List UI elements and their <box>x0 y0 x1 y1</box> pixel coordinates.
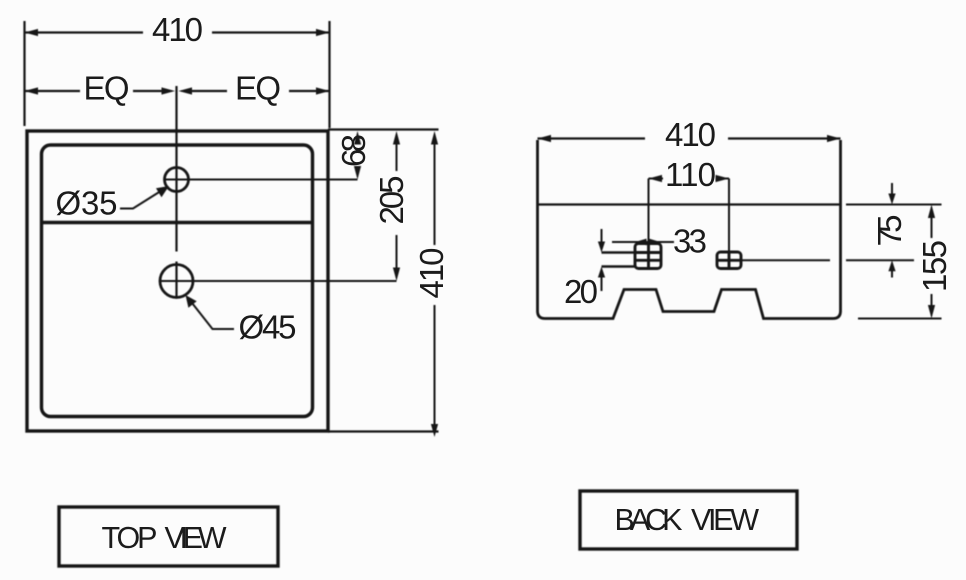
back view counter line extension right <box>846 204 942 206</box>
dimension 110 <box>649 175 730 252</box>
BACK VIEW label box <box>580 491 797 549</box>
drain hole circle (45mm) <box>160 265 193 298</box>
dimension 205 vertical <box>393 131 400 281</box>
back view outline <box>538 140 841 319</box>
dimension 410 back view <box>538 135 841 142</box>
node line from drain hole to 205 dim <box>159 280 397 282</box>
slot lines to 20 dim <box>602 253 636 267</box>
leader line for Ø35 <box>120 186 169 209</box>
top view basin divider line <box>42 221 313 224</box>
svg-text:EQ: EQ <box>84 70 130 107</box>
leader line for Ø45 <box>186 295 235 329</box>
right fixing hole block <box>717 252 741 269</box>
top edge extension line right <box>328 128 439 130</box>
centerline vertical <box>175 86 177 252</box>
svg-text:20: 20 <box>564 273 598 310</box>
TOP VIEW label box <box>59 507 278 566</box>
svg-text:VIEW: VIEW <box>165 521 227 555</box>
dimension 410 top: dimension line with arrows <box>25 29 330 36</box>
svg-text:BACK: BACK <box>615 503 683 537</box>
dimension 75 vertical <box>888 183 895 278</box>
faucet hole circle (35mm) <box>165 168 189 192</box>
dimension 155 vertical <box>928 205 935 319</box>
svg-text:EQ: EQ <box>235 70 281 107</box>
svg-text:Ø45: Ø45 <box>239 309 297 346</box>
svg-text:68: 68 <box>335 134 372 167</box>
svg-text:75: 75 <box>871 215 908 247</box>
svg-text:205: 205 <box>373 176 410 225</box>
svg-text:410: 410 <box>152 11 203 48</box>
dimension EQ EQ line with arrows <box>25 87 330 94</box>
bottom edge extension line right <box>328 430 439 432</box>
svg-text:410: 410 <box>413 248 450 299</box>
top view inner basin outline <box>42 145 313 417</box>
dimension 410 top: extension lines <box>23 21 25 126</box>
svg-text:VIEW: VIEW <box>691 503 759 537</box>
svg-text:TOP: TOP <box>102 521 158 555</box>
left fixing hole block <box>635 244 661 269</box>
dimension 20 vertical <box>598 229 605 291</box>
fixing hole height line to right dims <box>741 259 830 261</box>
svg-text:Ø35: Ø35 <box>56 185 118 222</box>
node line from faucet hole to 68 dim <box>164 179 358 181</box>
back view counter top line <box>538 203 841 205</box>
svg-text:33: 33 <box>673 223 707 260</box>
dimension 68 vertical <box>354 131 361 180</box>
bottom extension line for 155 <box>858 318 942 320</box>
svg-text:110: 110 <box>665 156 716 193</box>
top view outer outline <box>27 131 328 431</box>
dimension 33 leader <box>612 239 674 246</box>
svg-text:410: 410 <box>665 116 716 153</box>
dimension 410 right vertical <box>431 131 438 437</box>
svg-text:155: 155 <box>916 240 953 292</box>
